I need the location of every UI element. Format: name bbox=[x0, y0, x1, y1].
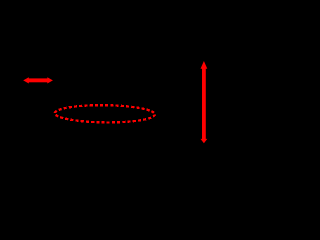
dashed ellipse (orbit / cylinder top face) bbox=[55, 105, 155, 123]
vertical double-headed dimension arrow (right) bbox=[201, 61, 208, 143]
horizontal double-headed dimension arrow (left) bbox=[23, 77, 53, 83]
